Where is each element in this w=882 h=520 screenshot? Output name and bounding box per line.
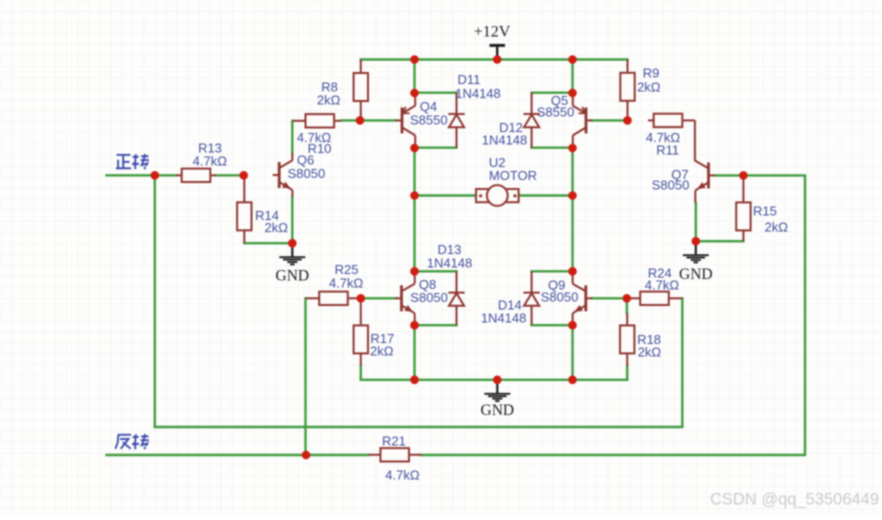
wire +12V rail (361, 58, 628, 60)
net label zhengzhuan (forward) (116, 154, 149, 169)
svg-text:2kΩ: 2kΩ (637, 79, 661, 94)
diode D14 (523, 271, 539, 325)
wire Q6 collector to R10 (291, 121, 293, 153)
svg-text:S8550: S8550 (537, 105, 575, 120)
junction zhengzhuan tap (151, 171, 160, 180)
wire D11 top (415, 91, 457, 93)
junction rail/+12V (493, 55, 502, 64)
wire Q7 base wire (715, 174, 744, 176)
ground GND under Q6 (276, 243, 310, 284)
wire R14 to gnd node (244, 242, 292, 244)
resistor R11 (648, 114, 695, 127)
wire Q6 emitter to gnd node (291, 197, 293, 243)
svg-text:CSDN @qq_53506449: CSDN @qq_53506449 (710, 491, 879, 509)
wire fanzhuan input (107, 454, 369, 456)
wire D13 bottom (415, 324, 457, 326)
junction Q7-emitter/R15/GND (692, 237, 701, 246)
wire Q9 base wire (592, 297, 627, 299)
svg-text:1N4148: 1N4148 (482, 132, 528, 147)
junction Q5 collector (568, 144, 577, 153)
svg-text:S8050: S8050 (288, 166, 326, 181)
svg-text:R11: R11 (656, 142, 679, 157)
svg-text:R15: R15 (753, 204, 777, 219)
junction Q6-emitter/R14/GND (288, 239, 297, 248)
resistor R25 (306, 292, 361, 305)
svg-text:4.7kΩ: 4.7kΩ (385, 468, 420, 483)
ground GND bottom (481, 380, 515, 419)
svg-text:S8050: S8050 (652, 177, 690, 192)
svg-text:1N4148: 1N4148 (481, 310, 527, 325)
wire Q8 emitter to gnd rail (413, 325, 415, 380)
wire D14 top (532, 270, 573, 272)
resistor R13 (176, 169, 216, 182)
net label fanzhuan (reverse) (115, 434, 149, 449)
transistor Q4 (396, 93, 416, 148)
wire D11 bottom (415, 146, 457, 148)
wire R18 top (626, 298, 629, 313)
junction R25/R17/Q8-base (357, 294, 366, 303)
junction rail/Q4 (410, 55, 419, 64)
wire motor left (415, 194, 477, 196)
resistor R18 (620, 313, 634, 366)
wire R11 to Q7 collector (694, 120, 696, 161)
svg-text:2kΩ: 2kΩ (638, 344, 662, 359)
svg-text:GND: GND (481, 402, 515, 419)
svg-text:S8550: S8550 (410, 113, 448, 128)
wire Q6 collector stub (291, 153, 293, 161)
wire rail to Q5 emitter (571, 60, 573, 94)
junction R24/R18/Q9-base (623, 294, 632, 303)
wire zhengzhuan input (107, 174, 177, 176)
wire R21 to Q7 base net (421, 175, 805, 455)
svg-text:S8050: S8050 (410, 290, 448, 305)
transistor Q7 (695, 161, 715, 203)
junction Q8 emitter (410, 321, 419, 330)
svg-text:D11: D11 (458, 72, 481, 87)
svg-text:2kΩ: 2kΩ (765, 220, 789, 235)
junction gnd rail/Q9 (568, 376, 577, 385)
wire D12 top (532, 91, 573, 93)
wire R13 to Q6 base node (216, 174, 244, 176)
transistor Q9 (573, 271, 593, 325)
junction Q7-base/R15 (739, 171, 748, 180)
svg-text:GND: GND (679, 266, 713, 283)
junction motor left (410, 191, 419, 200)
ground GND under Q7 (679, 241, 713, 283)
junction Q4 emitter (410, 89, 419, 98)
junction R8/R10/Q4-base (356, 116, 365, 125)
diode D13 (448, 271, 464, 325)
power +12V (474, 24, 511, 60)
wire R15 bottom to gnd node (696, 240, 744, 242)
wire D14 bottom (532, 324, 573, 326)
junction R13/R14/Q6-base (239, 171, 248, 180)
svg-text:R21: R21 (382, 434, 406, 449)
wire D13 top (415, 270, 457, 272)
transistor Q6 (273, 160, 293, 197)
wire fanzhuan branch to R25 (304, 298, 306, 455)
wire Q5 base to R9/R11 node (592, 119, 628, 121)
wire motor right (519, 194, 573, 196)
svg-text:1N4148: 1N4148 (455, 86, 501, 101)
svg-text:S8050: S8050 (541, 290, 579, 305)
wire node R8/R10/Q4-base (341, 119, 396, 121)
junction Q4 collector (410, 144, 419, 153)
svg-text:4.7kΩ: 4.7kΩ (329, 275, 364, 290)
svg-text:2kΩ: 2kΩ (370, 344, 394, 359)
junction Q5 emitter (568, 89, 577, 98)
wire gnd rail (361, 379, 627, 381)
resistor R10 (292, 114, 341, 127)
wire R17 to gnd rail (360, 366, 362, 380)
junction Q8 collector (410, 267, 419, 276)
wire Q7 emitter to gnd node (695, 203, 697, 241)
junction fanzhuan tap (302, 451, 311, 460)
resistor R17 (354, 298, 368, 366)
svg-text:2kΩ: 2kΩ (317, 92, 341, 107)
junction gnd rail/GND (493, 376, 502, 385)
wire left bridge vertical (413, 148, 415, 271)
wire Q9 emitter to gnd rail (571, 325, 573, 380)
svg-text:MOTOR: MOTOR (489, 168, 537, 183)
junction gnd rail/Q8 (410, 376, 419, 385)
junction Q9 emitter (568, 321, 577, 330)
junction rail/Q5 (568, 55, 577, 64)
resistor R8 (354, 60, 368, 121)
resistor R24 (627, 292, 683, 305)
svg-text:4.7kΩ: 4.7kΩ (645, 278, 680, 293)
svg-text:GND: GND (276, 268, 310, 285)
junction Q9 collector (568, 267, 577, 276)
junction R9/R11/Q5-base (623, 116, 632, 125)
wire zhengzhuan branch to R24 (155, 175, 683, 427)
wire rail to Q4 emitter (413, 60, 415, 94)
wire R25 to Q8 base (361, 297, 396, 299)
svg-text:4.7kΩ: 4.7kΩ (193, 154, 228, 169)
transistor Q5 (573, 93, 593, 148)
transistor Q8 (395, 271, 415, 325)
diode D11 (448, 93, 464, 148)
svg-text:1N4148: 1N4148 (427, 255, 473, 270)
wire right bridge vertical (571, 148, 573, 271)
diode D12 (523, 93, 539, 148)
svg-text:2kΩ: 2kΩ (265, 220, 289, 235)
resistor R9 (620, 60, 634, 121)
resistor R21 (369, 448, 422, 461)
motor U2 (476, 185, 519, 206)
junction motor right (568, 191, 577, 200)
wire D12 bottom (532, 146, 573, 148)
resistor R15 (736, 175, 750, 241)
wire R18 to gnd rail (626, 366, 628, 380)
svg-text:+12V: +12V (474, 24, 511, 41)
resistor R14 (237, 175, 251, 243)
